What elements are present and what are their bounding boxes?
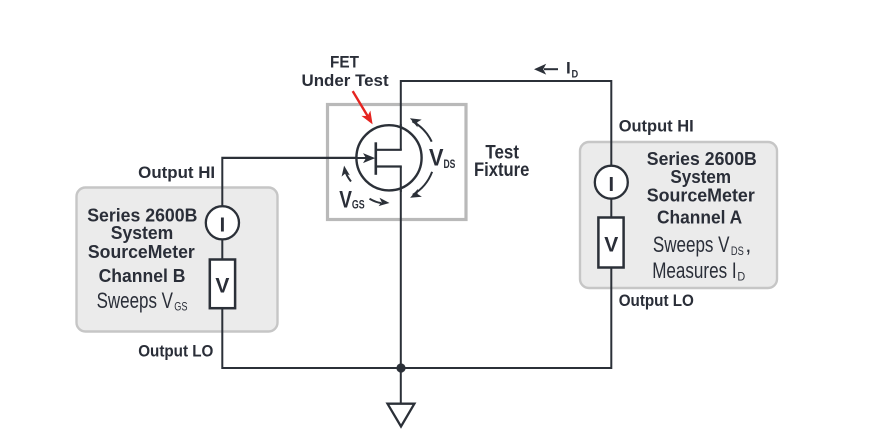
svg-text:D: D xyxy=(737,271,745,283)
VDS arc arrow bottom xyxy=(408,172,432,202)
svg-text:I: I xyxy=(566,58,571,77)
VGS arrow left xyxy=(340,165,351,182)
svg-text:GS: GS xyxy=(174,302,188,314)
svg-text:DS: DS xyxy=(444,159,456,171)
svg-text:Sweeps V: Sweeps V xyxy=(653,232,730,257)
svg-text:Under Test: Under Test xyxy=(302,72,390,90)
wire: source down to ground xyxy=(400,167,402,404)
FET gate arrowhead xyxy=(363,153,375,163)
FET source lead inside circle xyxy=(400,167,402,193)
svg-text:V: V xyxy=(215,274,229,297)
svg-text:Measures I: Measures I xyxy=(652,258,736,283)
svg-text:V: V xyxy=(339,187,352,214)
wire: main loop (Channel B HI corner, LO bus, Channel A vertical, top bus, drain) xyxy=(222,81,611,368)
voltmeter V (Channel B) xyxy=(210,260,235,309)
svg-text:V: V xyxy=(604,234,618,257)
svg-text:,: , xyxy=(745,232,751,257)
SourceMeter Channel A box xyxy=(580,142,777,288)
FET Q1 body xyxy=(356,125,421,190)
svg-text:GS: GS xyxy=(352,200,365,212)
ammeter I (Channel B) xyxy=(206,206,239,239)
svg-text:V: V xyxy=(429,144,444,171)
svg-text:I: I xyxy=(220,215,226,237)
svg-text:Sweeps V: Sweeps V xyxy=(97,288,174,313)
junction node xyxy=(396,363,405,372)
svg-text:Output HI: Output HI xyxy=(138,164,215,182)
current arrow ID xyxy=(534,58,578,80)
FET drain bar xyxy=(376,149,402,151)
svg-text:FET: FET xyxy=(330,54,359,72)
svg-text:Fixture: Fixture xyxy=(474,159,529,181)
FET source bar xyxy=(376,165,402,167)
svg-text:SourceMeter: SourceMeter xyxy=(88,242,195,262)
FET drain lead inside circle xyxy=(400,124,402,150)
SourceMeter Channel B box xyxy=(77,188,278,332)
VGS arrow right xyxy=(370,198,390,207)
red callout arrow xyxy=(353,91,377,127)
ground xyxy=(388,404,415,427)
svg-text:System: System xyxy=(670,167,731,187)
wire: gate lead from Channel B HI xyxy=(222,157,366,159)
svg-text:Channel B: Channel B xyxy=(99,266,186,286)
svg-text:System: System xyxy=(111,223,174,243)
VDS arc arrow top xyxy=(408,114,432,141)
svg-text:SourceMeter: SourceMeter xyxy=(647,185,755,205)
test fixture box xyxy=(328,105,530,220)
svg-text:Channel A: Channel A xyxy=(657,208,742,228)
svg-text:Output LO: Output LO xyxy=(138,343,213,361)
label FET Under Test xyxy=(302,54,390,90)
svg-text:Series 2600B: Series 2600B xyxy=(647,149,757,169)
voltmeter V (Channel A) xyxy=(598,218,623,268)
svg-text:Output HI: Output HI xyxy=(619,118,694,136)
FET gate bar xyxy=(374,142,377,175)
svg-text:Output LO: Output LO xyxy=(619,292,694,310)
ammeter I (Channel A) xyxy=(595,166,628,199)
svg-text:D: D xyxy=(572,68,579,80)
svg-text:DS: DS xyxy=(731,246,744,258)
svg-text:I: I xyxy=(609,174,615,196)
